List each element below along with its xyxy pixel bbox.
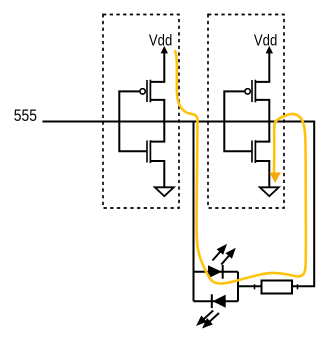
svg-text:555: 555: [14, 107, 37, 126]
svg-text:Vdd: Vdd: [149, 32, 172, 49]
svg-text:Vdd: Vdd: [254, 32, 277, 49]
